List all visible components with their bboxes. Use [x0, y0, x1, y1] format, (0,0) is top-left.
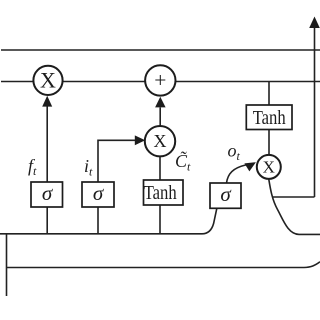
svg-text:X: X [263, 158, 275, 177]
svg-text:σ: σ [220, 182, 232, 206]
svg-text:X: X [154, 131, 167, 151]
svg-text:Tanh: Tanh [144, 182, 177, 204]
svg-text:σ: σ [42, 181, 54, 205]
svg-text:X: X [40, 68, 56, 93]
svg-text:σ: σ [93, 181, 105, 205]
svg-text:Tanh: Tanh [253, 107, 286, 129]
svg-text:+: + [154, 68, 166, 92]
